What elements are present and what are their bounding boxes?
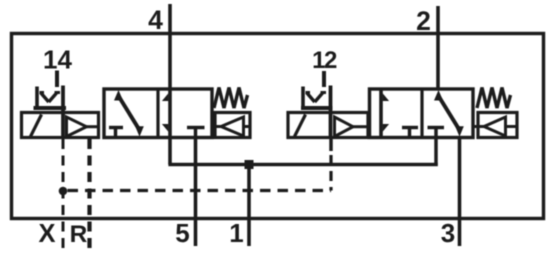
junction node: supply rail / port 1 — [245, 160, 254, 169]
return spring of V2 — [477, 88, 511, 109]
port 14 connector stub — [55, 71, 59, 88]
pilot exhaust actuator of V2 (box with left triangle) — [478, 113, 517, 138]
svg-text:1: 1 — [229, 218, 243, 248]
valve V1 body (two position squares) — [104, 89, 212, 138]
pilot exhaust actuator of V1 (box with left triangle) — [215, 113, 250, 138]
pilot line of V2 (solid stub + dashed vertical) — [329, 138, 333, 152]
pilot triangle of V1 — [67, 117, 87, 137]
pilot line R (dashed vertical) — [87, 139, 91, 248]
pilot line X (dashed vertical) — [62, 139, 65, 248]
svg-text:4: 4 — [148, 5, 163, 35]
svg-text:X: X — [38, 220, 55, 248]
valve V2 body (two position squares) — [370, 89, 474, 138]
actuator cell divider + pilot box right post — [329, 86, 333, 138]
solenoid pilot actuator of V2 (box) — [288, 113, 368, 138]
junction node on pilot line X — [59, 187, 68, 196]
wire: port 4 line / flow path through valve V1 down to supply rail — [168, 4, 172, 165]
svg-text:3: 3 — [441, 218, 455, 248]
valve V1 position a: blocked port (T symbol) — [109, 126, 123, 130]
actuator cell divider + pilot box right post — [61, 86, 65, 138]
valve V2 position a: blocked port (T symbol) — [402, 126, 418, 130]
wire: port 5 drop line — [194, 138, 198, 247]
svg-text:2: 2 — [416, 6, 431, 36]
solenoid coil diagonal — [31, 115, 42, 137]
valve V2 position b: blocked port 1 (T symbol) — [428, 126, 445, 130]
svg-text:14: 14 — [43, 44, 72, 74]
valve V1 position b: arrow barbs on flow line 1-4 — [162, 93, 169, 101]
wire: supply rail (port 1 manifold) — [168, 163, 437, 167]
pilot triangle of V2 — [335, 117, 354, 137]
valve V1 position b: blocked port 5 (T symbol) — [187, 126, 205, 130]
pilot manifold line (dashed horizontal) — [68, 189, 332, 192]
solenoid pilot actuator of V1 (box) — [22, 113, 99, 138]
svg-text:12: 12 — [312, 47, 337, 74]
seat poppet V symbol — [41, 93, 49, 103]
wire: T stem continuing down to supply rail — [434, 128, 438, 167]
wire: port 2 line — [436, 6, 440, 89]
valve V1 position a: exhaust path 4-5 (diagonal with arrowheads) — [119, 96, 140, 130]
svg-text:5: 5 — [175, 218, 189, 248]
pilot valve seat box of V2 (port 12) — [301, 87, 305, 110]
valve V2 position b: exhaust path 2-3 (diagonal with arrowheads) — [439, 96, 460, 130]
port 12 connector stub — [322, 71, 326, 87]
valve V2 position a: flow line 1-2 with arrow barbs — [379, 89, 383, 138]
return spring of V1 — [214, 88, 248, 109]
pilot valve seat box of V1 (port 14) — [35, 87, 39, 110]
svg-text:R: R — [70, 221, 88, 248]
enclosure border — [12, 34, 544, 219]
wire: port 3 drop line — [458, 138, 462, 247]
wire: port 1 drop line — [247, 165, 251, 247]
